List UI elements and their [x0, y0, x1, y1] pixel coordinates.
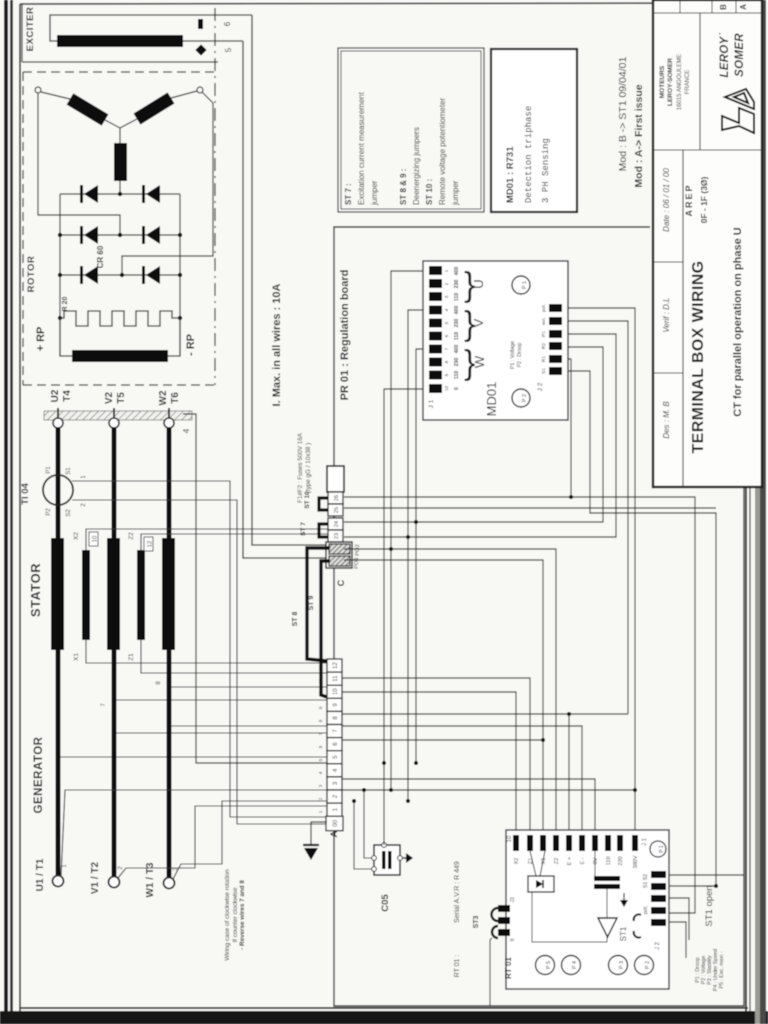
svg-text:P5 : Exc. maxi -: P5 : Exc. maxi -: [719, 951, 725, 988]
terminal U2 stud: [53, 408, 63, 428]
wire MD01 J1-10 to C05 top: [384, 389, 429, 845]
RT01 board box: [506, 830, 669, 989]
svg-text:3: 3: [444, 295, 450, 298]
stator winding U bar: [51, 538, 64, 650]
wire exciter lead 5: [183, 40, 243, 42]
jumper ST9 thick link: [307, 548, 330, 661]
stator winding V bar: [107, 538, 120, 650]
wire CT secondary S2: [72, 500, 327, 824]
MD01 J1 terminal blocks: [429, 266, 442, 393]
svg-text:U1 / T1: U1 / T1: [35, 858, 46, 891]
phase W thick wire lower: [167, 650, 172, 877]
wire PO1 to RT01 X1: [344, 560, 543, 835]
svg-text:7: 7: [318, 732, 323, 735]
terminal W1/T3 stud: [164, 878, 175, 889]
svg-text:If counter clockwise: If counter clockwise: [232, 887, 239, 942]
svg-text:R 20: R 20: [62, 297, 69, 312]
svg-text:T5: T5: [116, 392, 127, 404]
terminal U1/T1 stud: [53, 876, 64, 887]
svg-text:E +: E +: [567, 857, 573, 865]
svg-text:jumper: jumper: [451, 180, 460, 206]
svg-text:ST 9: ST 9: [308, 596, 315, 611]
wire MD01 J2-2: [568, 321, 628, 714]
RT01 J2 terminal blocks: [651, 871, 666, 926]
svg-text:X1: X1: [73, 653, 80, 661]
wire 5 vertical run to PO1: [243, 41, 326, 558]
wire tap V phase (7): [114, 699, 327, 701]
wire CT secondary S1: [72, 481, 327, 817]
svg-text:EXCITER: EXCITER: [25, 7, 36, 52]
svg-text:ST 10 :: ST 10 :: [425, 179, 434, 205]
wire fuse to output: [532, 892, 607, 942]
phase U thick wire lower: [56, 650, 61, 875]
resistor R 20 (square meander): [60, 311, 180, 326]
terminal plate hatched strip: [44, 411, 192, 420]
LEROY SOMER logo glyph: [722, 89, 754, 133]
svg-text:LEROY-SOMER: LEROY-SOMER: [667, 58, 674, 106]
svg-text:E -: E -: [580, 857, 586, 864]
wire exciter lead 6 (top loop): [50, 15, 252, 41]
stator winding W bar: [162, 538, 175, 650]
svg-text:1: 1: [318, 810, 323, 813]
rotor winding center phase bar: [114, 143, 127, 181]
svg-text:U2: U2: [50, 389, 61, 402]
svg-text:P2 : Droop: P2 : Droop: [517, 342, 523, 367]
aux winding Z bar: [137, 550, 145, 640]
wire U1 to strip A: [61, 790, 327, 876]
svg-text:230: 230: [454, 319, 460, 328]
strip C terminal 26: [328, 492, 343, 504]
wire MD01 J1-7: [416, 349, 429, 763]
svg-text:230: 230: [454, 358, 460, 367]
MD01 J2 terminal blocks: [549, 304, 562, 375]
svg-text:4: 4: [182, 428, 191, 433]
ST jumper legend box: [338, 48, 484, 212]
revision row cells: [653, 0, 762, 13]
potentiometer P2 RT01: [635, 956, 654, 975]
svg-text:ROTOR: ROTOR: [26, 256, 37, 293]
svg-text:Verif : D.L: Verif : D.L: [662, 297, 671, 332]
scan paper edge left: [4, 0, 13, 1024]
svg-text:12: 12: [333, 662, 339, 669]
svg-text:GENERATOR: GENERATOR: [33, 736, 45, 813]
phase V thick wire upper: [112, 428, 117, 538]
svg-text:110: 110: [454, 293, 460, 301]
rotor Y-point left terminal: [35, 87, 41, 93]
wire tap W phase (8): [169, 686, 327, 688]
svg-text:9: 9: [444, 373, 450, 376]
diode D3: [80, 226, 98, 244]
wire 4 from W2 to strip A: [183, 414, 327, 763]
svg-text:ext.: ext.: [541, 317, 547, 325]
diode D6: [142, 266, 160, 284]
svg-text:P 4: P 4: [572, 961, 578, 969]
svg-text:400: 400: [454, 345, 460, 354]
jumper ST8 thick link: [321, 561, 330, 697]
svg-text:ST1 open: ST1 open: [704, 885, 715, 926]
diode D5: [80, 266, 98, 284]
wire Z1 to strip A: [141, 640, 327, 673]
svg-text:X2: X2: [73, 532, 80, 540]
strip C terminal 23: [328, 530, 343, 542]
svg-text:S1 S2: S1 S2: [643, 874, 649, 888]
svg-text:3 PH Sensing: 3 PH Sensing: [541, 138, 551, 203]
svg-text:F1#F2 : Fuses 500V 16A: F1#F2 : Fuses 500V 16A: [297, 432, 304, 503]
svg-text:PO2: PO2: [355, 544, 361, 556]
svg-text:C: C: [336, 579, 346, 586]
phase W thick wire upper: [167, 428, 172, 538]
wire MD01 J1-4: [408, 310, 429, 801]
RT01 J1 terminal blocks: [513, 835, 638, 851]
wire field winding ends: [60, 318, 180, 356]
rotor winding left phase bar: [70, 99, 105, 120]
svg-text:T4: T4: [62, 390, 73, 402]
svg-text:400: 400: [454, 306, 460, 315]
jumper ST10: [319, 498, 328, 510]
RT01 fuse box: [528, 876, 554, 892]
svg-text:1: 1: [444, 269, 450, 272]
wire 00 to ground: [311, 822, 327, 845]
wire C-23 from MD01 J2-3: [344, 334, 616, 537]
svg-text:5: 5: [444, 321, 450, 324]
svg-text:Detection triphase: Detection triphase: [524, 106, 534, 203]
svg-text:MD01: MD01: [484, 382, 499, 417]
svg-text:12: 12: [148, 540, 154, 547]
terminal V2 stud: [109, 408, 119, 428]
wire rotor phase1 to bridge row2: [38, 93, 120, 235]
svg-text:T6: T6: [170, 392, 181, 404]
svg-text:W2: W2: [158, 390, 169, 405]
svg-text:230: 230: [454, 280, 460, 289]
wire RT01 J2-1 right: [666, 874, 744, 876]
wire A-3 to RT01 0V: [342, 779, 595, 835]
svg-text:X2: X2: [514, 858, 520, 865]
wire U-phase sense to C05: [364, 790, 373, 858]
wire MD01 J1-1: [391, 271, 429, 790]
svg-text:R2: R2: [541, 343, 547, 349]
svg-text:P 1: P 1: [522, 281, 528, 289]
capacitor C05 plates: [382, 851, 392, 869]
rotor Y-point right terminal: [197, 87, 203, 93]
svg-text:110: 110: [454, 371, 460, 379]
rotor dashed boundary box: [23, 8, 215, 385]
svg-text:I. Max. in all wires : 10A: I. Max. in all wires : 10A: [271, 284, 283, 407]
MD01 legend box: [491, 49, 577, 212]
wire A-11 to RT01 Z1: [342, 678, 530, 835]
C05 terminals: [372, 843, 403, 872]
svg-text:110: 110: [606, 857, 612, 866]
svg-text:CR 60: CR 60: [96, 245, 105, 268]
MD01 J1 voltage labels: [454, 267, 460, 390]
svg-text:ST 10: ST 10: [304, 491, 311, 509]
svg-text:Z2: Z2: [128, 532, 135, 540]
current transformer TI 04: [43, 475, 73, 505]
diode D4: [142, 226, 160, 244]
junction dots bridge: [58, 192, 182, 320]
svg-text:ST3: ST3: [473, 915, 480, 928]
svg-text:V: V: [471, 318, 486, 327]
svg-text:J 1: J 1: [428, 399, 435, 408]
svg-text:ST 8 & 9 :: ST 8 & 9 :: [399, 169, 408, 205]
svg-text:FRANCE: FRANCE: [685, 70, 691, 95]
label P1 Voltage / P2 Droop: [510, 341, 523, 369]
svg-text:CT for parallel operation on: CT for parallel operation on phase U: [732, 227, 744, 417]
jumper ST7: [319, 524, 328, 537]
svg-text:R1: R1: [541, 356, 547, 362]
svg-text:P1: P1: [541, 331, 547, 337]
svg-text:220: 220: [618, 856, 624, 865]
svg-text:S1: S1: [541, 368, 547, 374]
wire W-phase sense to C05: [354, 801, 373, 869]
potentiometer P2: [512, 389, 530, 407]
svg-text:400: 400: [454, 267, 460, 276]
wire cap connections: [595, 851, 607, 918]
strip C terminal 24: [328, 518, 343, 530]
plug PO2: [329, 544, 361, 556]
svg-text:Remote voltage potentiometer: Remote voltage potentiometer: [438, 97, 447, 205]
svg-text:Serial A.V.R : R 449: Serial A.V.R : R 449: [454, 861, 461, 923]
svg-text:Z1: Z1: [128, 653, 135, 661]
svg-text:24: 24: [334, 521, 340, 527]
svg-text:4: 4: [444, 308, 450, 311]
wire A-8 to RT01 E-: [342, 726, 582, 835]
svg-text:MOTEURS: MOTEURS: [659, 65, 666, 98]
svg-text:B: B: [719, 4, 728, 10]
wire MD01 J2-6 to RT01 J2-2: [568, 371, 716, 886]
svg-text:J 1: J 1: [642, 837, 648, 846]
wire C-25 long run: [344, 507, 716, 509]
MD01 J1 pin numbers: [444, 269, 450, 391]
svg-text:(type gG / 10x38 ): (type gG / 10x38 ): [305, 443, 312, 493]
tag 10: [89, 532, 99, 546]
MD01 J2 labels: [541, 304, 547, 374]
svg-text:Wiring case of clockwise rotat: Wiring case of clockwise rotation: [224, 869, 231, 961]
svg-text:Mod : B -> ST1 09/04/01: Mod : B -> ST1 09/04/01: [617, 57, 629, 172]
svg-text:16015 ANGOULEME: 16015 ANGOULEME: [677, 54, 683, 110]
svg-text:110: 110: [454, 332, 460, 340]
svg-text:S1: S1: [66, 467, 72, 475]
svg-text:P1: P1: [46, 466, 52, 474]
scan paper edge right: [755, 0, 760, 1024]
svg-text:2: 2: [318, 797, 323, 800]
svg-text:P 1: P 1: [659, 845, 665, 853]
svg-text:A: A: [329, 830, 340, 837]
wire J3 to box edge: [490, 938, 492, 1006]
wire RT01 J2-3 hook: [666, 898, 689, 940]
svg-text:Z2: Z2: [554, 858, 560, 864]
ST legend text: [344, 91, 460, 206]
svg-text:- Reverse wires 7 and 8: - Reverse wires 7 and 8: [239, 880, 246, 950]
RT01 capacitor: [594, 876, 620, 889]
capacitor C05 box: [374, 845, 400, 875]
svg-text:PO1: PO1: [354, 557, 360, 569]
wire A-6 tie: [342, 739, 543, 741]
svg-text:5: 5: [318, 758, 323, 761]
svg-text:A: A: [739, 4, 748, 10]
svg-text:10: 10: [444, 386, 450, 392]
potentiometer P3: [609, 956, 628, 975]
terminal W2 stud: [164, 408, 174, 428]
connector mark lead 6: [198, 19, 203, 29]
connector J3 / ST3 blocks: [498, 905, 510, 936]
wire A-9 to RT01 E+: [342, 713, 628, 715]
wire PO2 to RT01 Z2: [344, 549, 556, 835]
svg-text:P 2: P 2: [522, 394, 528, 402]
svg-text:J 2: J 2: [537, 382, 544, 391]
svg-text:pot.: pot.: [643, 906, 649, 915]
ground symbol: [303, 845, 319, 860]
svg-text:Deenergizing jumpers: Deenergizing jumpers: [412, 127, 421, 205]
svg-text:C05: C05: [380, 894, 391, 912]
wire X2 tap: [86, 529, 328, 550]
strip C terminal 25: [328, 504, 343, 516]
svg-text:+ RP: + RP: [35, 327, 47, 352]
wire RT01 J2-5 hook: [666, 922, 686, 958]
jumper ST3 loops: [492, 908, 499, 938]
diode bridge rails: [60, 194, 180, 356]
svg-text:Mod : A-> First issue: Mod : A-> First issue: [633, 84, 645, 187]
plug PO1: [329, 556, 360, 569]
connector PO2/PO1 block: [326, 542, 352, 568]
svg-text:ST 7: ST 7: [300, 522, 307, 536]
svg-text:3: 3: [318, 784, 323, 787]
svg-text:12: 12: [318, 665, 323, 671]
svg-text:ST 7 :: ST 7 :: [344, 183, 353, 205]
phase V thick wire lower: [112, 650, 117, 876]
svg-text:7: 7: [444, 347, 450, 350]
rotor main field winding bar: [72, 350, 168, 362]
jumper ST1 bracket: [634, 914, 641, 937]
svg-text:LEROY˙: LEROY˙: [719, 32, 731, 77]
svg-text:TERMINAL BOX WIRING: TERMINAL BOX WIRING: [690, 260, 707, 453]
rotation note text: [224, 869, 246, 961]
gate arrow mark: [620, 893, 628, 907]
svg-text:X1: X1: [541, 858, 547, 865]
svg-text:6: 6: [223, 21, 232, 26]
svg-text:0: 0: [454, 387, 460, 390]
svg-text:SOMER: SOMER: [734, 33, 746, 77]
svg-text:AREP: AREP: [684, 183, 694, 216]
wire tap U phase: [58, 756, 327, 758]
svg-text:W1 / T3: W1 / T3: [145, 862, 156, 897]
wire rotor phase2 to bridge row3: [122, 92, 213, 275]
RT01 J1 labels: [514, 855, 639, 868]
wire A-10 to RT01 X2: [342, 692, 516, 835]
svg-text:11: 11: [318, 678, 323, 683]
svg-text:ST 8: ST 8: [292, 612, 299, 627]
svg-text:RT 01: RT 01: [504, 957, 513, 979]
svg-text:10: 10: [333, 688, 339, 695]
svg-text:TI 04: TI 04: [20, 482, 31, 504]
svg-text:- RP: - RP: [185, 334, 197, 356]
wire rotor Y connections: [41, 91, 197, 194]
MD01 board box: [423, 261, 568, 420]
potentiometer P5: [536, 956, 555, 975]
wire U1 sensing to RT01 380V: [342, 789, 635, 791]
svg-text:23: 23: [334, 533, 340, 539]
PR01 enclosure box: [334, 227, 744, 1006]
strip A terminal numbers: [333, 662, 339, 827]
wire W1 to strip A: [173, 801, 327, 879]
svg-text:STATOR: STATOR: [28, 563, 43, 617]
exciter field winding bar: [57, 35, 183, 47]
des/verif/date row cells: [653, 150, 683, 487]
svg-text:S2: S2: [66, 509, 72, 517]
wire MD01 J2-5: [568, 359, 571, 497]
svg-text:25: 25: [334, 507, 340, 513]
diode D1: [80, 185, 98, 203]
potentiometer P4: [562, 956, 581, 975]
svg-text:8: 8: [444, 360, 450, 363]
svg-text:V1 / T2: V1 / T2: [90, 861, 101, 894]
svg-text:W: W: [472, 355, 487, 368]
svg-text:10: 10: [507, 835, 513, 842]
svg-text:11: 11: [333, 675, 339, 682]
svg-text:6: 6: [444, 334, 450, 337]
junction dots mesh: [352, 495, 718, 888]
svg-text:0F - 1F (3Ø): 0F - 1F (3Ø): [699, 176, 709, 223]
MOTEURS address text: [659, 54, 691, 110]
connector mark lead 5: [195, 44, 206, 55]
svg-text:10: 10: [93, 535, 99, 542]
moteurs / logo cell divider: [653, 13, 762, 150]
tag 12: [144, 537, 154, 551]
svg-text:ST1: ST1: [619, 926, 628, 941]
svg-text:J3: J3: [510, 897, 516, 903]
C05 output arrow mark: [403, 853, 413, 863]
wire 6 vertical run to PO2: [252, 15, 326, 545]
wire C-26 to RT01 J2-4: [344, 497, 695, 913]
phase U thick wire upper: [56, 428, 61, 538]
wire C-24 from MD01 J2-4: [344, 347, 603, 522]
svg-text:6: 6: [318, 745, 323, 748]
svg-text:26: 26: [334, 495, 340, 501]
potentiometer P1: [512, 276, 530, 294]
terminal V1/T2 stud: [109, 877, 120, 888]
svg-text:V2: V2: [104, 391, 115, 404]
svg-text:Des : M. B: Des : M. B: [662, 401, 671, 439]
svg-text:U: U: [471, 279, 486, 288]
svg-text:P 3: P 3: [619, 961, 625, 969]
svg-text:P 2: P 2: [645, 961, 651, 969]
label F1#F2 fuses: [297, 432, 312, 503]
svg-text:P 5: P 5: [546, 961, 552, 969]
scan paper edge bottom: [0, 1011, 768, 1024]
svg-text:PR 01 : Regulation board: PR 01 : Regulation board: [339, 270, 351, 401]
wire tap W phase lower: [169, 725, 327, 727]
wires into fuse: [530, 851, 545, 876]
wire Z2 tap: [141, 534, 328, 550]
svg-text:Excitation current measurement: Excitation current measurement: [357, 91, 366, 205]
svg-text:10: 10: [318, 691, 323, 697]
strip A stub wire numbers: [318, 665, 323, 813]
svg-text:4: 4: [318, 771, 323, 774]
svg-text:0V: 0V: [593, 857, 599, 864]
fuse F1: [327, 466, 344, 492]
aux winding X bar: [82, 550, 90, 640]
svg-text:2: 2: [444, 282, 450, 285]
wire MD01 J2-1 to RT01 380V: [568, 308, 635, 835]
potentiometer P1 RT01: [650, 841, 666, 857]
rotor winding right phase bar: [137, 98, 171, 119]
svg-text:9: 9: [510, 938, 516, 941]
title block frame: [653, 0, 762, 487]
svg-text:jumper: jumper: [370, 180, 379, 206]
svg-text:P1 : Voltage: P1 : Voltage: [510, 341, 516, 369]
wire V1 to strip A: [118, 806, 327, 878]
exciter box: [22, 4, 218, 62]
svg-text:J 2: J 2: [655, 941, 661, 950]
